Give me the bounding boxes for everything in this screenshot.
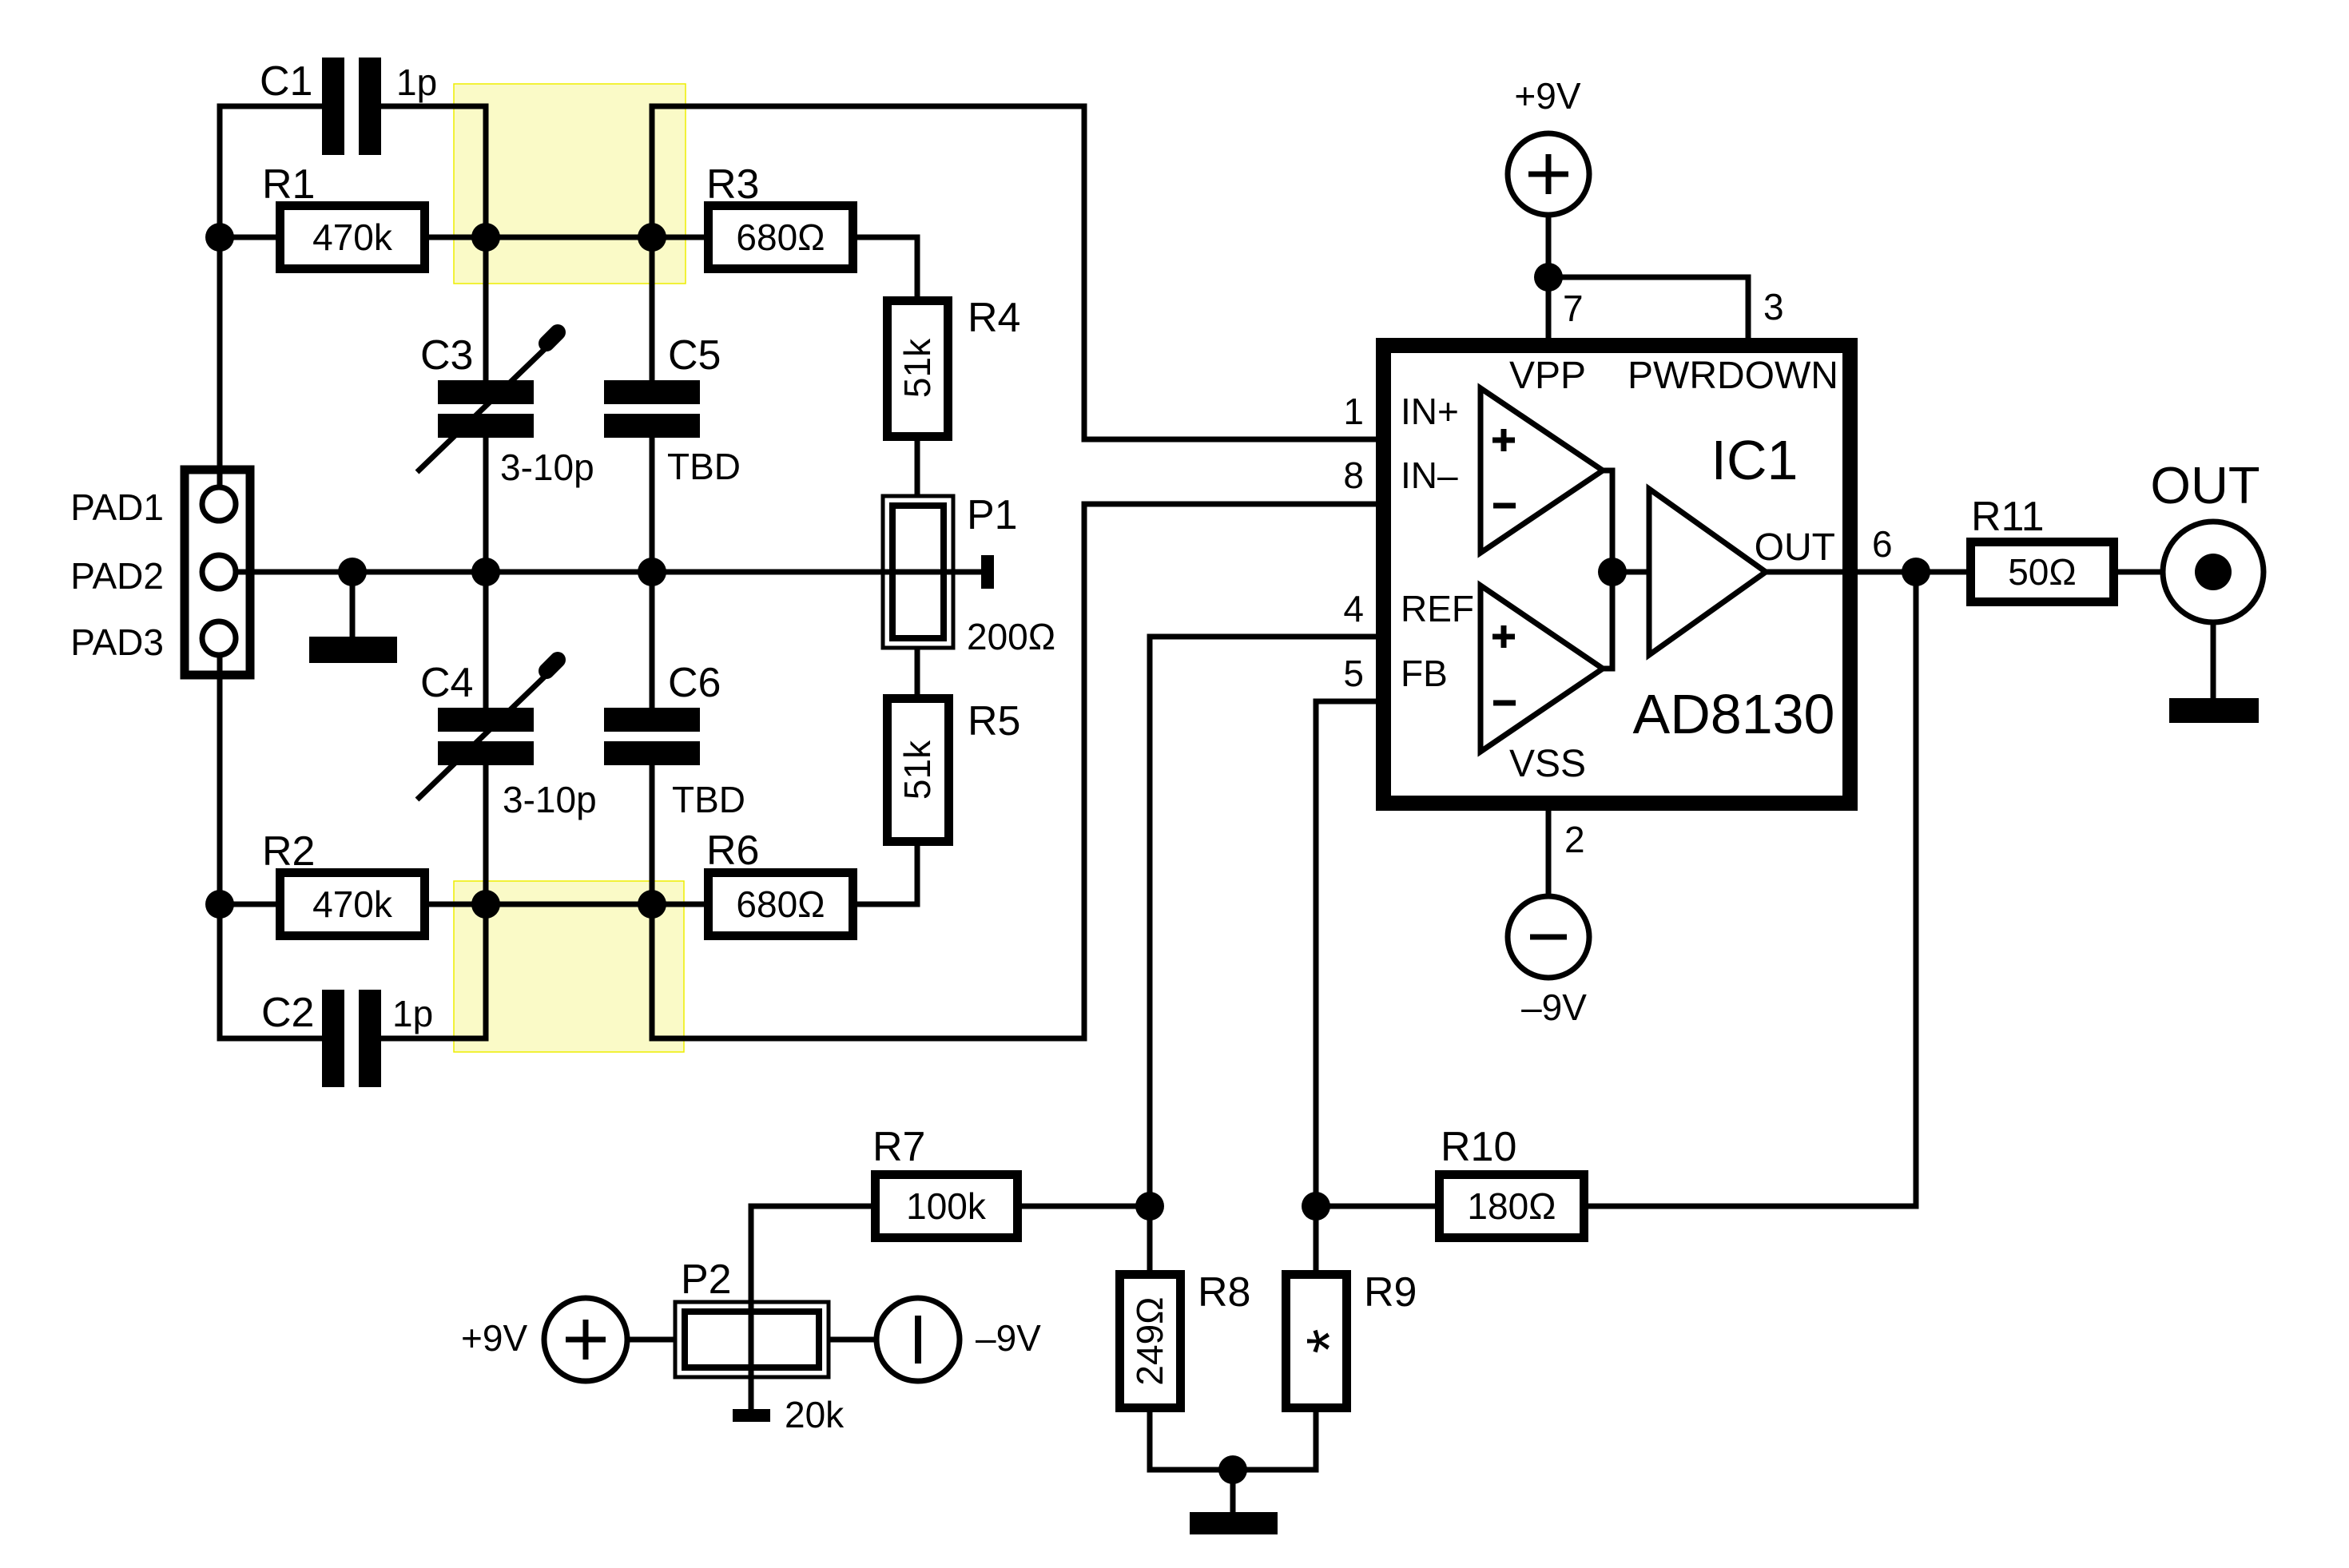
svg-text:OUT: OUT xyxy=(2150,456,2260,514)
wire xyxy=(650,438,655,708)
svg-text:C6: C6 xyxy=(668,660,721,706)
ground (mid rail) xyxy=(309,637,397,663)
capacitor C3 (trimmer) xyxy=(417,332,558,472)
highlight region bottom xyxy=(454,881,684,1052)
wire xyxy=(381,765,486,1038)
-9V source below IC xyxy=(1508,896,1589,978)
svg-text:51k: 51k xyxy=(896,740,938,800)
wire xyxy=(220,235,276,240)
wire (pad stub bottom) xyxy=(217,654,223,681)
svg-text:C1: C1 xyxy=(260,58,312,105)
svg-text:249Ω: 249Ω xyxy=(1129,1296,1171,1385)
capacitor C1 xyxy=(322,58,381,155)
wire xyxy=(915,441,920,496)
svg-text:5: 5 xyxy=(1343,653,1364,694)
svg-text:C2: C2 xyxy=(261,990,314,1036)
resistor R11 xyxy=(1971,542,2114,602)
svg-text:3-10p: 3-10p xyxy=(503,779,597,820)
wire xyxy=(652,504,1376,1038)
junction xyxy=(638,223,666,252)
svg-text:OUT: OUT xyxy=(1755,526,1835,569)
svg-text:–9V: –9V xyxy=(1521,986,1587,1028)
op-amp output buffer triangle xyxy=(1649,489,1766,655)
svg-text:R10: R10 xyxy=(1441,1124,1516,1170)
-9V source bottom xyxy=(876,1298,960,1381)
junction xyxy=(638,890,666,919)
wire xyxy=(220,902,276,907)
wire (pad stub top) xyxy=(217,466,223,488)
minus sign feedback stage xyxy=(1493,701,1516,706)
wire xyxy=(829,1337,876,1343)
svg-text:100k: 100k xyxy=(906,1185,987,1227)
wire (rail through P1) xyxy=(879,570,988,575)
resistor R1 xyxy=(280,206,425,269)
minus sign input stage xyxy=(1493,503,1516,509)
svg-text:51k: 51k xyxy=(896,338,938,398)
resistor R8 xyxy=(1120,1275,1181,1408)
wire xyxy=(652,106,1376,439)
svg-text:AD8130: AD8130 xyxy=(1633,683,1835,745)
wire (internal summing) xyxy=(1603,470,1612,669)
svg-text:R11: R11 xyxy=(1971,494,2045,540)
svg-text:R7: R7 xyxy=(872,1124,925,1170)
svg-text:3-10p: 3-10p xyxy=(500,447,594,488)
wire xyxy=(1314,1206,1319,1270)
ground (OUT) xyxy=(2169,698,2259,723)
svg-text:+9V: +9V xyxy=(461,1317,527,1359)
resistor R10 xyxy=(1440,1175,1584,1238)
wire xyxy=(429,235,704,240)
svg-text:R5: R5 xyxy=(968,698,1020,744)
svg-text:200Ω: 200Ω xyxy=(967,616,1055,657)
+9V source bottom xyxy=(544,1298,627,1381)
resistor R4 xyxy=(888,301,948,437)
svg-text:7: 7 xyxy=(1563,288,1584,329)
svg-text:1: 1 xyxy=(1343,391,1364,432)
svg-text:TBD: TBD xyxy=(672,779,745,820)
resistor R5 xyxy=(888,699,949,842)
svg-text:180Ω: 180Ω xyxy=(1467,1185,1556,1227)
junction xyxy=(1534,263,1563,292)
svg-text:R3: R3 xyxy=(706,161,759,208)
svg-text:1p: 1p xyxy=(392,993,433,1034)
wire xyxy=(483,438,489,708)
OUT connector xyxy=(2163,522,2264,622)
junction xyxy=(638,558,666,586)
svg-text:1p: 1p xyxy=(396,62,437,103)
svg-text:REF: REF xyxy=(1401,588,1474,629)
wire xyxy=(1766,570,1966,575)
ground (R8 R9) xyxy=(1190,1512,1278,1534)
resistor R2 xyxy=(280,873,425,936)
wire xyxy=(1612,570,1649,575)
svg-text:C3: C3 xyxy=(420,332,473,379)
wire xyxy=(220,106,322,487)
junction xyxy=(471,890,500,919)
svg-text:470k: 470k xyxy=(312,216,393,258)
svg-text:TBD: TBD xyxy=(667,446,741,487)
svg-text:IN–: IN– xyxy=(1401,455,1458,496)
svg-text:FB: FB xyxy=(1401,653,1448,694)
P1 wiper terminal xyxy=(981,555,994,589)
wire xyxy=(1022,1204,1150,1209)
potentiometer P1 xyxy=(883,496,953,648)
svg-text:R4: R4 xyxy=(968,295,1020,341)
svg-text:50Ω: 50Ω xyxy=(2008,551,2077,593)
svg-text:IC1: IC1 xyxy=(1711,429,1799,491)
pad circle PAD1 xyxy=(202,487,236,521)
svg-text:680Ω: 680Ω xyxy=(736,883,825,925)
wire xyxy=(1147,1206,1153,1270)
wire xyxy=(236,570,988,575)
plus sign feedback stage xyxy=(1492,625,1515,648)
ground (P2 wiper) xyxy=(733,1409,770,1422)
capacitor C4 (trimmer) xyxy=(417,660,558,800)
wire xyxy=(1546,811,1552,896)
wire xyxy=(429,902,704,907)
potentiometer P2 xyxy=(675,1302,829,1377)
capacitor C2 xyxy=(322,990,381,1087)
svg-text:6: 6 xyxy=(1872,523,1893,565)
op-amp feedback stage triangle xyxy=(1481,586,1603,752)
svg-text:R8: R8 xyxy=(1198,1269,1250,1316)
wire xyxy=(1233,1412,1316,1470)
junction xyxy=(205,223,234,252)
junction xyxy=(205,890,234,919)
junction xyxy=(1902,558,1930,586)
svg-text:470k: 470k xyxy=(312,883,393,925)
svg-text:P2: P2 xyxy=(681,1256,732,1303)
wire xyxy=(1316,701,1376,1206)
connector PAD box xyxy=(185,470,250,675)
resistor R6 xyxy=(709,873,853,936)
resistor R9 xyxy=(1286,1275,1347,1408)
junction xyxy=(471,223,500,252)
op-amp IC1 box xyxy=(1384,346,1850,804)
svg-text:VPP: VPP xyxy=(1509,355,1586,397)
svg-text:PWRDOWN: PWRDOWN xyxy=(1628,355,1838,397)
wire xyxy=(1150,637,1376,1206)
op-amp input stage triangle xyxy=(1481,388,1603,553)
wire xyxy=(381,106,486,380)
svg-text:4: 4 xyxy=(1343,588,1364,629)
svg-text:PAD2: PAD2 xyxy=(70,555,164,597)
pad circle PAD3 xyxy=(202,621,236,655)
svg-text:P1: P1 xyxy=(967,492,1018,538)
resistor R3 xyxy=(709,206,853,269)
wire xyxy=(1230,1470,1236,1512)
svg-text:C4: C4 xyxy=(420,660,473,706)
svg-text:C5: C5 xyxy=(668,332,721,379)
junction xyxy=(471,558,500,586)
wire xyxy=(1588,572,1916,1206)
svg-text:VSS: VSS xyxy=(1509,743,1586,785)
svg-text:R2: R2 xyxy=(262,828,315,875)
wire xyxy=(751,1206,871,1409)
wire xyxy=(2211,622,2216,698)
wire xyxy=(857,237,917,296)
svg-text:PAD3: PAD3 xyxy=(70,621,164,663)
wire xyxy=(915,648,920,694)
svg-text:R9: R9 xyxy=(1364,1269,1417,1316)
junction xyxy=(1302,1192,1330,1221)
junction xyxy=(1135,1192,1164,1221)
wire xyxy=(350,572,356,637)
wire xyxy=(1150,1412,1233,1470)
junction xyxy=(338,558,367,586)
wire xyxy=(1548,277,1748,338)
svg-text:–9V: –9V xyxy=(976,1317,1041,1359)
svg-text:IN+: IN+ xyxy=(1401,391,1459,432)
wire xyxy=(857,846,917,904)
svg-text:R6: R6 xyxy=(706,828,759,874)
+9V source top xyxy=(1508,133,1589,215)
svg-text:*: * xyxy=(1294,1328,1365,1353)
wire xyxy=(627,1337,675,1343)
wire xyxy=(1546,215,1552,338)
highlight region top xyxy=(454,84,686,284)
svg-text:PAD1: PAD1 xyxy=(70,486,164,528)
resistor R7 xyxy=(876,1175,1018,1238)
svg-text:R1: R1 xyxy=(262,161,315,208)
wire xyxy=(2118,570,2163,575)
junction xyxy=(1218,1455,1247,1484)
wire xyxy=(1316,1204,1435,1209)
wire xyxy=(220,655,322,1038)
svg-text:680Ω: 680Ω xyxy=(736,216,825,258)
pad circle PAD2 xyxy=(202,555,236,589)
svg-text:20k: 20k xyxy=(785,1394,845,1435)
capacitor C6 xyxy=(604,708,700,765)
node (internal junction) xyxy=(1598,558,1627,586)
svg-text:3: 3 xyxy=(1763,286,1784,327)
wire (pad2 stub right) xyxy=(234,570,257,575)
svg-text:2: 2 xyxy=(1564,819,1585,860)
svg-text:8: 8 xyxy=(1343,455,1364,496)
svg-text:+9V: +9V xyxy=(1514,75,1580,117)
capacitor C5 xyxy=(604,380,700,438)
wire (P2 wiper through box) xyxy=(749,1302,754,1409)
plus sign input stage xyxy=(1492,429,1515,451)
